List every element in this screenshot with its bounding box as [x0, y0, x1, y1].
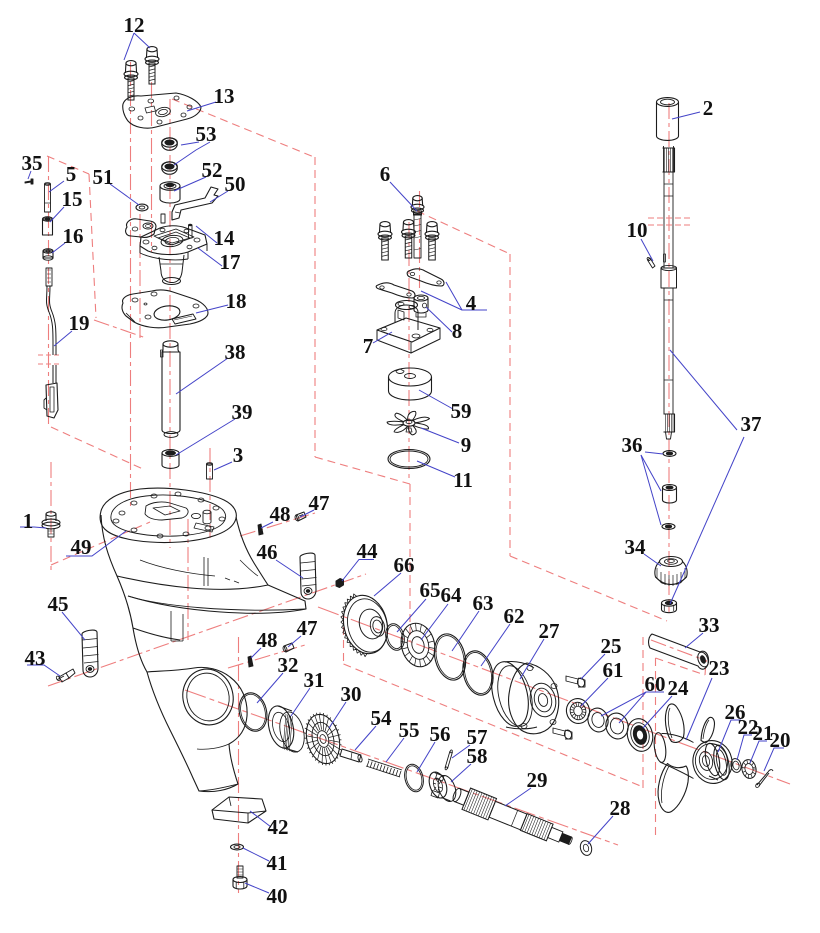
- bolt B: [403, 220, 413, 225]
- axis inside housing: [187, 519, 189, 640]
- bearing 53 upper: [162, 138, 178, 150]
- housing body right edge: [236, 517, 268, 585]
- boundary L3: [315, 457, 410, 484]
- svg-text:15: 15: [62, 187, 83, 211]
- svg-text:10: 10: [627, 218, 648, 242]
- axis left column: [48, 156, 50, 427]
- boundary L2: [314, 157, 316, 457]
- o-ring 62: [458, 648, 497, 699]
- sleeve 52: [160, 186, 180, 203]
- boundary left right edge: [89, 174, 96, 318]
- valve 8: [414, 295, 428, 301]
- seal 24: [624, 716, 656, 754]
- pump housing 17: [140, 226, 207, 255]
- axis middle column: [408, 222, 410, 478]
- ring 56: [402, 762, 426, 794]
- pinion 34: [660, 557, 683, 567]
- svg-text:24: 24: [668, 676, 690, 700]
- svg-text:27: 27: [539, 619, 560, 643]
- axis bolt 6: [419, 191, 421, 288]
- svg-text:56: 56: [430, 722, 451, 746]
- bolt A: [380, 222, 390, 227]
- axis driveshaft: [668, 103, 670, 612]
- flange center openings: [145, 502, 188, 520]
- svg-text:25: 25: [601, 634, 622, 658]
- washer 60a: [585, 706, 610, 734]
- gear 30: [301, 711, 344, 767]
- svg-text:9: 9: [461, 433, 472, 457]
- torpedo bore outer: [177, 664, 239, 730]
- bolt C: [427, 222, 437, 227]
- boundary L6: [509, 254, 511, 556]
- bolt 1: [46, 512, 56, 516]
- svg-text:19: 19: [69, 311, 90, 335]
- axis washer 51: [139, 214, 141, 338]
- lower housing: [147, 667, 247, 791]
- plug 47 bottom: [284, 643, 294, 652]
- prop blade ribs: [661, 708, 709, 803]
- tube 38: [163, 341, 178, 347]
- bolt 12a: [126, 61, 136, 66]
- svg-text:64: 64: [441, 583, 463, 607]
- axis bolt 12a: [130, 62, 132, 507]
- svg-text:46: 46: [257, 540, 278, 564]
- svg-text:65: 65: [420, 578, 441, 602]
- svg-text:49: 49: [71, 535, 92, 559]
- body below plate left: [133, 628, 180, 640]
- nut 44: [336, 579, 344, 588]
- plug 47 top: [296, 512, 306, 521]
- pin 48 top: [258, 524, 263, 535]
- svg-text:11: 11: [453, 468, 473, 492]
- svg-text:59: 59: [451, 399, 472, 423]
- flange stud: [203, 512, 211, 524]
- spacer 36: [663, 485, 677, 491]
- svg-text:28: 28: [610, 796, 631, 820]
- housing 49 flange outer: [100, 488, 236, 542]
- o-ring 63: [430, 631, 470, 684]
- washer 60b: [603, 711, 631, 742]
- housing body left edge: [101, 515, 147, 672]
- seal 61: [564, 696, 592, 726]
- svg-text:35: 35: [22, 151, 43, 175]
- link 4 upper: [407, 269, 444, 286]
- svg-text:23: 23: [709, 656, 730, 680]
- anti-ventilation plate: [117, 576, 306, 613]
- pin 54: [340, 749, 361, 762]
- prop hub end rings: [698, 750, 715, 771]
- tube 33: [649, 634, 709, 669]
- bearing carrier 27: [486, 658, 535, 730]
- housing interior lines: [171, 611, 183, 641]
- svg-text:60: 60: [645, 672, 666, 696]
- axis to pump: [94, 320, 146, 338]
- bearing 53 lower: [162, 162, 178, 174]
- svg-text:8: 8: [452, 319, 463, 343]
- svg-text:14: 14: [214, 226, 236, 250]
- washer 51: [136, 204, 148, 211]
- axis propeller shaft lower: [185, 690, 618, 845]
- gear 66: [338, 591, 394, 659]
- anode 45: [82, 630, 98, 677]
- cotter pin 20: [757, 772, 769, 786]
- boundary left top: [47, 156, 89, 174]
- skeg trailing: [199, 784, 238, 791]
- propeller 23: [689, 737, 736, 787]
- clutch 58: [426, 770, 450, 801]
- link 4 lower: [376, 283, 415, 298]
- seal 39: [162, 453, 179, 468]
- boundary gear cluster vertical: [343, 614, 345, 664]
- svg-text:39: 39: [232, 400, 253, 424]
- svg-text:7: 7: [363, 334, 374, 358]
- bushing 15: [43, 219, 53, 235]
- impeller 9: [387, 411, 429, 434]
- axis skeg bolts: [238, 637, 240, 893]
- prop shaft 29: [450, 783, 576, 852]
- washer 36a: [663, 451, 676, 457]
- svg-text:63: 63: [473, 591, 494, 615]
- washer 41: [231, 844, 244, 850]
- break marks rod 19: [38, 354, 61, 356]
- svg-text:33: 33: [699, 613, 720, 637]
- svg-text:54: 54: [371, 706, 393, 730]
- axis plug 47 top: [240, 513, 315, 536]
- svg-text:12: 12: [124, 13, 145, 37]
- rod 19 detent: [46, 383, 58, 418]
- break marks driveshaft: [648, 217, 691, 219]
- svg-text:51: 51: [93, 165, 114, 189]
- boundary L7: [510, 556, 667, 621]
- box 33 bottom: [656, 658, 706, 675]
- bolt 25a: [566, 676, 578, 684]
- svg-text:31: 31: [304, 668, 325, 692]
- axis propeller shaft upper: [318, 607, 790, 784]
- axis plug 47 bottom: [228, 645, 305, 668]
- axis bolt 12b: [151, 82, 153, 252]
- svg-text:41: 41: [267, 851, 288, 875]
- svg-text:47: 47: [309, 491, 330, 515]
- sleeve 2: [657, 98, 679, 107]
- bolt 25b: [553, 728, 565, 736]
- svg-text:32: 32: [278, 653, 299, 677]
- svg-text:66: 66: [394, 553, 415, 577]
- skeg guard 42: [212, 797, 266, 823]
- torpedo bore inner: [182, 669, 234, 726]
- pin 48 bottom: [248, 656, 253, 667]
- svg-text:34: 34: [625, 535, 647, 559]
- svg-text:58: 58: [467, 744, 488, 768]
- boundary prop left: [642, 637, 644, 788]
- axis anodes: [48, 574, 366, 686]
- svg-text:29: 29: [527, 768, 548, 792]
- washer 28: [579, 839, 594, 856]
- svg-text:62: 62: [504, 604, 525, 628]
- svg-text:43: 43: [25, 646, 46, 670]
- svg-text:45: 45: [48, 592, 69, 616]
- bolt 43: [59, 673, 69, 682]
- svg-text:13: 13: [214, 84, 235, 108]
- o-ring 11: [388, 450, 430, 469]
- driveshaft 37: [663, 148, 675, 172]
- prop blade bottom: [658, 764, 688, 813]
- pin small: [161, 214, 165, 223]
- axis bolt1: [50, 462, 52, 572]
- svg-text:5: 5: [66, 162, 77, 186]
- bearing 64: [397, 620, 440, 671]
- svg-text:30: 30: [341, 682, 362, 706]
- nut driveshaft: [662, 600, 677, 606]
- prop hub nose: [652, 732, 667, 763]
- bearing 31: [264, 703, 298, 751]
- tab left pump: [126, 219, 156, 238]
- axis tube 33: [651, 640, 707, 661]
- washer 22: [730, 758, 743, 774]
- screw 35: [25, 179, 33, 184]
- svg-text:4: 4: [466, 291, 477, 315]
- svg-text:3: 3: [233, 443, 244, 467]
- axis pump column: [169, 99, 171, 548]
- pump base 7: [377, 318, 440, 342]
- svg-text:47: 47: [297, 616, 318, 640]
- prop blade right: [701, 717, 715, 743]
- thrust hub 26: [703, 742, 723, 777]
- pin 14: [189, 225, 193, 238]
- boundary prop left2: [655, 658, 657, 838]
- svg-text:48: 48: [257, 628, 278, 652]
- plate 18 gasket: [122, 290, 208, 328]
- spring 55: [366, 759, 402, 777]
- box 33 right: [705, 661, 706, 675]
- pin 57: [445, 751, 453, 769]
- axis bolt1 to flange: [51, 522, 150, 565]
- svg-text:42: 42: [268, 815, 289, 839]
- svg-text:1: 1: [23, 509, 34, 533]
- bolt 12b: [147, 47, 157, 52]
- pin 3: [207, 464, 213, 479]
- boundary left bottom: [51, 427, 145, 470]
- svg-text:53: 53: [196, 122, 217, 146]
- anode 46: [300, 553, 316, 599]
- insert cup 59: [389, 368, 432, 386]
- plate 13: [123, 93, 201, 128]
- prop nut 21: [740, 758, 758, 779]
- washer 36b: [662, 524, 675, 530]
- flange holes: [113, 492, 225, 538]
- svg-text:38: 38: [225, 340, 246, 364]
- boundary gear cluster diagonal: [344, 664, 644, 787]
- bolt 6: [413, 196, 422, 201]
- svg-text:40: 40: [267, 884, 288, 908]
- svg-text:61: 61: [603, 658, 624, 682]
- svg-text:36: 36: [622, 433, 643, 457]
- svg-text:44: 44: [357, 539, 379, 563]
- pin 10: [648, 258, 656, 268]
- svg-text:2: 2: [703, 96, 714, 120]
- flange slot: [194, 523, 214, 532]
- boundary L4: [409, 484, 411, 642]
- svg-text:6: 6: [380, 162, 391, 186]
- svg-text:52: 52: [202, 158, 223, 182]
- boundary L1: [172, 99, 314, 157]
- svg-text:16: 16: [63, 224, 84, 248]
- o-ring 32: [235, 690, 271, 734]
- rod 5: [45, 184, 51, 212]
- snap ring 65: [383, 622, 407, 653]
- svg-text:55: 55: [399, 718, 420, 742]
- svg-text:17: 17: [220, 250, 241, 274]
- shift rod 19: [46, 268, 52, 286]
- prop blade top: [665, 704, 684, 743]
- axis pin 3: [209, 448, 211, 538]
- bolt 40: [237, 866, 243, 878]
- housing 49 flange inner: [111, 495, 226, 536]
- svg-text:48: 48: [270, 502, 291, 526]
- nut 16: [43, 251, 53, 258]
- svg-text:50: 50: [225, 172, 246, 196]
- svg-text:18: 18: [226, 289, 247, 313]
- svg-text:26: 26: [725, 700, 746, 724]
- link 50: [172, 187, 218, 220]
- boundary L5: [417, 211, 510, 254]
- svg-text:37: 37: [741, 412, 762, 436]
